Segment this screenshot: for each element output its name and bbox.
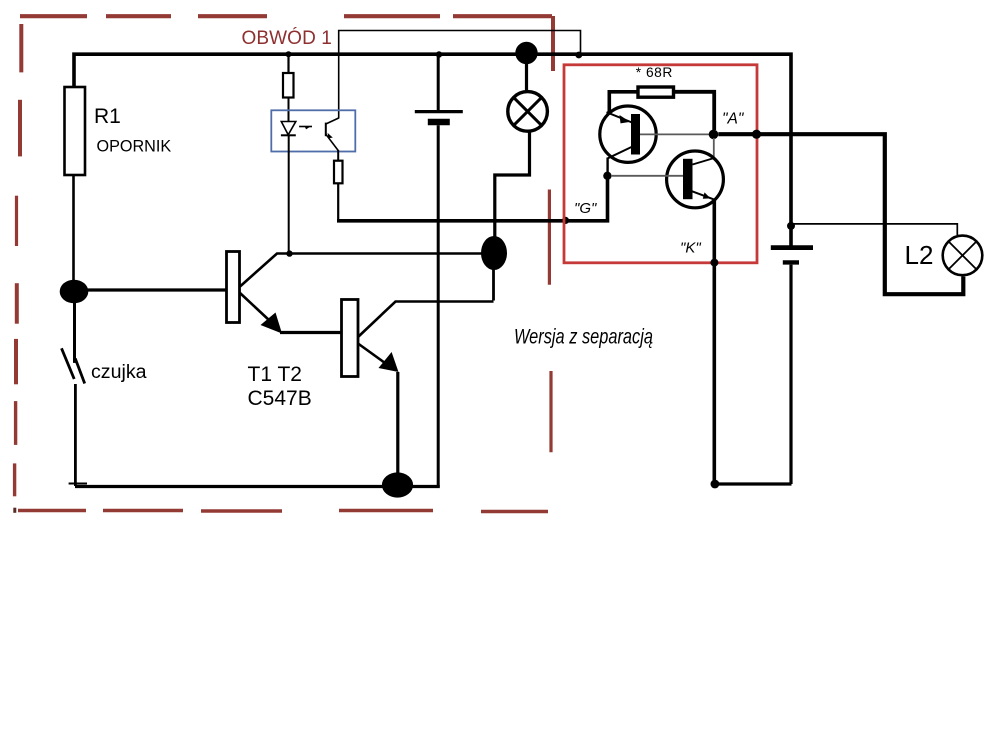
wire node to T1 base (74, 288, 227, 291)
battery B2 plate long (771, 245, 813, 250)
switch czujka (62, 348, 75, 379)
wire T1 collector to mid node (290, 252, 484, 255)
svg-text:"A": "A" (722, 111, 745, 128)
transistor Q1 (600, 106, 656, 162)
svg-text:czujka: czujka (91, 361, 147, 383)
resistor R2 (opto input) (283, 73, 294, 98)
svg-text:C547B: C547B (248, 387, 312, 410)
dashed boundary OBWOD 1 (left column) (15, 24, 22, 513)
node dot bottom join (711, 480, 720, 489)
node dot K on red box edge (710, 259, 718, 267)
resistor R1 (65, 87, 86, 175)
transistor T2 emitter (358, 344, 385, 364)
wire T2 emitter down to bottom node (396, 372, 399, 478)
transistor T1 emitter (240, 293, 270, 321)
node dot A wire on red box edge (752, 130, 761, 139)
battery B1 plate long (415, 110, 463, 113)
svg-text:R1: R1 (94, 105, 121, 128)
svg-text:OBWÓD 1: OBWÓD 1 (242, 27, 332, 49)
dashed boundary OBWOD 1 (right column) (549, 16, 553, 452)
optocoupler U1 box (271, 110, 355, 151)
node big dot bottom (382, 472, 413, 497)
resistor R3 (opto output) (334, 161, 343, 184)
wire battery B2 bottom (789, 265, 792, 484)
optocoupler LED (281, 122, 296, 135)
svg-text:L2: L2 (905, 240, 934, 270)
wire gate G horizontal (337, 176, 608, 221)
resistor 68R wires (609, 92, 638, 113)
node big dot mid (481, 236, 507, 270)
wire switch to bottom rail (74, 384, 77, 486)
wire bottom join to battery B2 (715, 482, 792, 485)
node A dot (709, 130, 719, 140)
wire battery B1 to bottom rail (437, 125, 440, 486)
wire R2 to LED (288, 98, 290, 122)
wire battery B1 vertical (top) (437, 54, 440, 110)
wire node down to switch (73, 300, 76, 363)
node dot T1 collector (286, 250, 292, 256)
battery B2 plate short (783, 260, 799, 264)
wire R3 down to gate rail (337, 183, 339, 219)
wire K down (712, 201, 716, 482)
wire lamp L1 top (525, 60, 528, 91)
svg-text:"G": "G" (574, 200, 597, 217)
wire anode A to lamp L2 (718, 134, 963, 294)
transistor T1 collector (240, 254, 290, 287)
dashed boundary OBWOD 1 (bottom row) (18, 511, 548, 512)
wire bottom rail jog stub (69, 483, 87, 485)
wire T1 emitter to T2 base (280, 331, 342, 334)
svg-text:T1 T2: T1 T2 (248, 363, 302, 386)
transistor T2 base bar (342, 300, 359, 377)
svg-text:* 68R: * 68R (636, 65, 673, 80)
node left (big dot) (60, 280, 89, 304)
node big dot top (515, 42, 537, 64)
optocoupler phototransistor (325, 123, 327, 137)
transistor T2 collector (358, 302, 494, 338)
wire R1 bottom to left node (72, 175, 75, 291)
link Q1 base to node A (640, 133, 709, 135)
wire mid node to T2 collector rail (492, 253, 495, 301)
lamp L1 (508, 92, 548, 132)
resistor 68R (638, 87, 674, 97)
wire rail to resistor R2 (287, 55, 289, 73)
wire lamp L1 bottom to mid node (495, 132, 530, 253)
thin wire battery B2 to lamp L2 top (791, 224, 957, 235)
svg-text:OPORNIK: OPORNIK (97, 137, 172, 155)
lamp L2 (943, 236, 983, 276)
transistor Q2 (667, 151, 724, 208)
battery B1 plate short thick (428, 119, 450, 125)
wire LED cathode down to T1 collector node (288, 136, 290, 252)
link node A to Q2 collector (713, 138, 715, 159)
wire opto emitter to resistor R3 (337, 150, 339, 161)
thin wire optocoupler collector to top right (339, 31, 581, 119)
transistor T1 base bar (227, 252, 240, 323)
optocoupler light arrow (299, 126, 312, 128)
red box (separation module) (564, 65, 757, 263)
wire bottom rail (75, 485, 440, 488)
node dot at rail/B1 (436, 51, 442, 57)
svg-text:"K": "K" (680, 240, 701, 257)
node dot at rail/opto resistor (286, 51, 292, 57)
svg-text:Wersja z separacją: Wersja z separacją (514, 325, 653, 348)
node dot Q1 collector / gate (603, 172, 611, 180)
wire top rail with left drop to R1 and right drop to battery B2 (74, 54, 791, 245)
node dot battery B2 top (787, 222, 795, 230)
node dot top right (575, 52, 582, 59)
dashed boundary OBWOD 1 (top row) (20, 14, 552, 18)
node dot G on red box edge (562, 217, 569, 224)
